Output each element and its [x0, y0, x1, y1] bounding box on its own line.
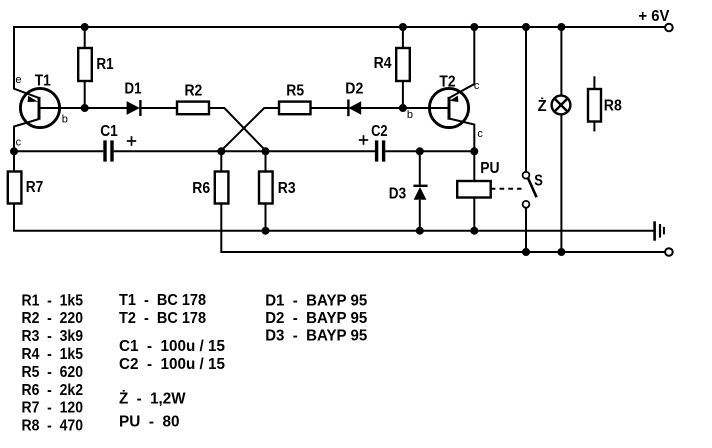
- wire T2 collector down to C2 row: [449, 119, 474, 152]
- wire D3 top lead: [419, 151, 421, 185]
- capacitor C2 plus sign: [359, 135, 368, 145]
- node switch-low rail: [522, 248, 530, 256]
- wire R8 top stub: [593, 76, 595, 89]
- wire D2 to T2 base node: [361, 107, 403, 109]
- switch S contacts and blade: [523, 172, 537, 208]
- svg-text:c: c: [16, 137, 22, 149]
- wire R7 bottom lead and ground rail: [14, 204, 654, 231]
- node lamp-low rail: [557, 248, 565, 256]
- wire PU top lead: [473, 151, 475, 181]
- resistor R5: [279, 102, 311, 115]
- svg-text:R7 - 120: R7 - 120: [22, 400, 84, 417]
- svg-text:PU - 80: PU - 80: [119, 414, 180, 431]
- node rail-T2e: [470, 23, 478, 31]
- svg-text:R3 - 3k9: R3 - 3k9: [22, 328, 84, 345]
- terminal +6V (open circle): [665, 24, 673, 32]
- node rail-switch: [522, 23, 530, 31]
- parts list column 2: [119, 292, 225, 431]
- relay PU dashed link to switch: [491, 188, 522, 190]
- wire R7 top lead: [13, 151, 15, 171]
- diode D2: [348, 100, 361, 117]
- svg-text:C1 - 100u / 15: C1 - 100u / 15: [119, 338, 225, 355]
- svg-text:S: S: [534, 173, 543, 190]
- svg-text:D1 - BAYP 95: D1 - BAYP 95: [265, 292, 367, 309]
- resistor R3: [259, 172, 273, 204]
- ground symbol: [653, 221, 665, 240]
- wire T1 base to node: [40, 107, 85, 109]
- svg-text:R5 - 620: R5 - 620: [22, 364, 84, 381]
- resistor R7: [8, 172, 22, 204]
- svg-text:R1: R1: [96, 56, 113, 73]
- wire R8 bottom stub: [593, 122, 595, 132]
- wire top +6V rail: [14, 26, 665, 28]
- wire R3 top lead: [265, 151, 267, 171]
- svg-text:R4 - 1k5: R4 - 1k5: [22, 346, 84, 363]
- svg-text:D1: D1: [125, 80, 142, 97]
- svg-text:R4: R4: [374, 55, 392, 72]
- wire R2 to crossover to R6 node: [209, 108, 266, 151]
- svg-text:R1 - 1k5: R1 - 1k5: [22, 292, 84, 309]
- node rail-lamp: [557, 23, 565, 31]
- svg-text:D2: D2: [345, 81, 363, 98]
- resistor R6: [215, 172, 229, 204]
- svg-text:c: c: [474, 80, 480, 92]
- resistor R1: [78, 48, 92, 81]
- svg-text:T1 - BC 178: T1 - BC 178: [119, 292, 206, 309]
- svg-text:R6 - 2k2: R6 - 2k2: [22, 382, 84, 399]
- node D3-ground rail: [416, 227, 424, 235]
- svg-text:R3: R3: [278, 180, 296, 197]
- capacitor C1 plus sign: [127, 136, 136, 146]
- wire R4 top lead: [402, 27, 404, 48]
- resistor R4: [396, 48, 410, 81]
- wire R1 bottom lead: [84, 81, 86, 108]
- svg-text:C1: C1: [100, 123, 118, 140]
- node T1 base: [81, 104, 89, 112]
- node C2-D3: [416, 147, 424, 155]
- svg-text:R5: R5: [286, 83, 304, 100]
- svg-text:R2: R2: [185, 83, 203, 100]
- wire C1 row left: node to C1: [14, 150, 103, 152]
- wire R5 to D2: [311, 107, 348, 109]
- svg-text:e: e: [15, 74, 21, 86]
- wire node to D1: [85, 107, 128, 109]
- diode D1: [127, 100, 141, 116]
- wire D3 bottom lead: [419, 200, 421, 231]
- wire C2 to D3 node to T2 collector node: [385, 150, 474, 152]
- svg-text:T1: T1: [35, 73, 51, 90]
- wire C1 to R6 node to R3 node to C2: [114, 150, 375, 152]
- svg-text:T2: T2: [439, 74, 455, 91]
- svg-text:R2 - 220: R2 - 220: [22, 310, 84, 327]
- node R3-ground rail: [262, 227, 270, 235]
- svg-text:R7: R7: [26, 179, 44, 196]
- node R3-C row: [262, 147, 270, 155]
- node T2c-PU: [470, 147, 478, 155]
- svg-text:R8: R8: [604, 98, 622, 115]
- svg-text:c: c: [477, 128, 483, 140]
- capacitor C1: [103, 140, 113, 161]
- capacitor C2: [375, 140, 385, 161]
- node rail-R4: [399, 23, 407, 31]
- lamp Z (bulb): [552, 96, 571, 115]
- wire R3 bottom lead: [265, 204, 267, 231]
- wire R6 bottom lead down and right to low rail: [221, 204, 665, 253]
- wire R4 bottom lead: [402, 81, 404, 108]
- wire R1 top lead: [84, 27, 86, 48]
- wire switch S to low rail: [525, 208, 527, 252]
- svg-text:T2 - BC 178: T2 - BC 178: [119, 310, 206, 327]
- wire T2 base from node: [403, 107, 449, 109]
- parts list column 1: [22, 292, 84, 434]
- svg-text:R6: R6: [192, 180, 210, 197]
- svg-text:R8 - 470: R8 - 470: [22, 418, 84, 435]
- node PU-ground rail: [470, 227, 478, 235]
- wire R5 from crossover to R6 node side: [221, 108, 279, 151]
- resistor R2: [177, 102, 209, 115]
- wire T1 collector to C1 row: [14, 119, 39, 151]
- svg-text:C2: C2: [371, 123, 388, 140]
- wire PU bottom lead: [473, 198, 475, 231]
- svg-text:D3 - BAYP 95: D3 - BAYP 95: [265, 328, 367, 345]
- wire switch S from rail: [525, 27, 527, 172]
- node C1-R6: [217, 147, 225, 155]
- svg-text:PU: PU: [480, 160, 499, 177]
- wire lamp bottom lead to low rail: [560, 115, 562, 252]
- resistor R8: [588, 89, 601, 122]
- wire D1 to R2: [140, 107, 177, 109]
- svg-text:C2 - 100u / 15: C2 - 100u / 15: [119, 356, 225, 373]
- node rail-R1: [81, 23, 89, 31]
- node T1c-C1: [10, 147, 18, 155]
- transistor T2: [429, 88, 468, 127]
- wire lamp top lead: [560, 27, 562, 95]
- relay coil PU: [457, 181, 491, 198]
- node T2 base: [399, 104, 407, 112]
- svg-text:b: b: [407, 109, 413, 121]
- diode D3: [413, 186, 427, 200]
- svg-text:b: b: [62, 114, 68, 126]
- svg-text:Ż: Ż: [538, 97, 547, 115]
- svg-text:Ż - 1,2W: Ż - 1,2W: [119, 389, 186, 407]
- svg-text:+ 6V: + 6V: [638, 8, 669, 25]
- svg-text:D3: D3: [389, 186, 406, 203]
- svg-text:D2 - BAYP 95: D2 - BAYP 95: [265, 310, 367, 327]
- transistor T1: [20, 88, 59, 127]
- wire left column from rail to T1 emitter: [14, 26, 39, 98]
- wire R6 top lead: [220, 151, 222, 171]
- terminal bottom right (open circle): [665, 248, 673, 256]
- wire T2 emitter up to rail: [450, 26, 475, 98]
- parts list column 3: [265, 292, 367, 344]
